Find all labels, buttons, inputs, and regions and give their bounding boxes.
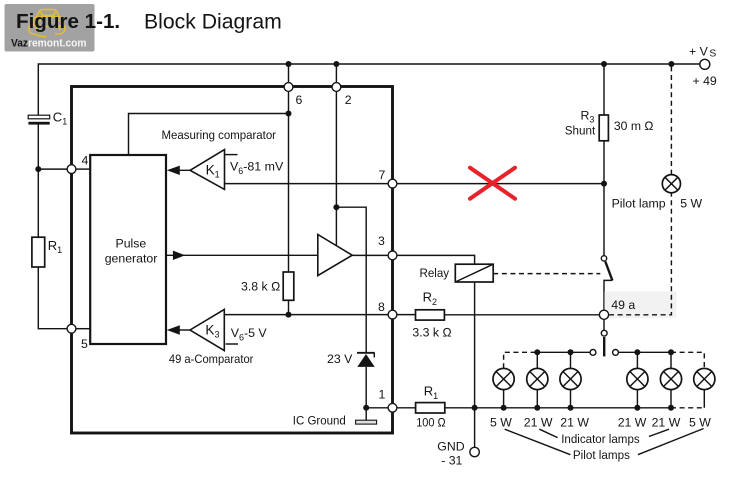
wire R1 to pin5 [38,267,67,329]
wire 3.8k to pin8 row [288,300,290,314]
pulse generator block [90,155,166,344]
wire zener to pin1 row [365,367,367,408]
svg-text:IC Ground: IC Ground [293,414,346,428]
terminal GND -31 [470,447,479,456]
node top bus lamp2 [534,349,540,355]
wire pin8 row inside [224,314,388,316]
wire 49a to lamp switch [603,319,605,330]
svg-text:3: 3 [378,234,385,248]
pointer line Pilot lamps to 5W right [638,429,704,455]
node top bus lamp4 [634,349,640,355]
wire pin2 down [335,91,337,245]
lamp switch pivot contact [601,330,607,336]
dashed wire relay to pilot switch [493,273,600,275]
svg-text:Pilot lamps: Pilot lamps [573,448,630,462]
node top bus lamp5 [668,349,674,355]
wire pin4 to pulse generator [76,168,90,170]
svg-text:49 a-Comparator: 49 a-Comparator [169,352,254,366]
lamp switch right contact [613,350,619,356]
wire top bus to pin6 [288,64,290,83]
pin 5 [67,324,76,333]
svg-text:7: 7 [379,168,386,182]
wire relay to ground node [474,282,476,408]
red cross mark [470,168,515,199]
resistor R1 100ohm [416,403,445,413]
wire pin7 row [225,183,389,185]
pin 3 [388,251,397,260]
node left at pin4 row [35,166,41,172]
svg-text:+ 49: + 49 [693,74,717,88]
watermark Vazremont logo box [5,4,95,52]
dashed lamp ground bus right end [671,407,704,409]
lamp switch blade [603,337,605,356]
node top bus / R3 [601,61,607,67]
node pin2 / zener branch [333,204,339,210]
svg-text:21 W: 21 W [618,416,647,430]
pilot lamp [662,175,680,193]
svg-text:Block Diagram: Block Diagram [144,11,282,34]
wire pin1 to R1 [397,407,416,409]
pointer line 5W left to Pilot lamps [505,429,571,455]
resistor 3.8k [283,272,294,300]
wire R2 to 49a [444,314,599,316]
node top bus / pin6 [286,61,292,67]
svg-text:V6-81 mV: V6-81 mV [230,160,284,176]
dashed wire 49a to pilot lamp [609,193,671,315]
watermark remnant tint behind 49a [605,292,677,319]
pilot switch contact [601,256,606,261]
IC ground symbol [356,408,377,424]
wire K1 branch to pulse generator top [129,114,289,156]
resistor R2 [416,310,445,320]
wire zener branch [336,207,366,352]
wire pin7 to shunt node [397,183,604,185]
zener diode 23V [357,353,375,367]
lamp top bus solid left [537,351,590,353]
wire R3 to pilot switch [603,141,605,256]
svg-text:Vazremont.com: Vazremont.com [11,38,87,50]
lamp switch left contact [590,350,596,356]
node top bus lamp3 [568,349,574,355]
wire pin3 to relay [397,255,475,264]
pilot switch blade [605,262,612,281]
svg-text:V6-5 V: V6-5 V [231,326,268,342]
node top bus / pin2 [333,61,339,67]
node ground bus lamp3 [568,405,574,411]
svg-text:23 V: 23 V [327,352,353,366]
pointer line 21W left to Indicator lamps [539,429,557,437]
svg-text:Measuring comparator: Measuring comparator [162,128,277,142]
svg-text:21 W: 21 W [652,416,681,430]
node pin7 row / R3 line [601,181,607,187]
wire GND branch [474,408,476,447]
svg-text:5 W: 5 W [689,416,711,430]
wire top bus to pin2 [335,64,337,83]
svg-text:GND: GND [437,440,464,454]
wire pin6 down to 3.8k [288,91,290,272]
dashed wire pilot lamp to top bus [670,64,672,175]
wire pin1 row inside [366,407,388,409]
wire K3 output arrow into pulse generator [167,325,190,334]
svg-text:3.3 k Ω: 3.3 k Ω [412,326,452,340]
pin 8 [388,310,397,319]
svg-text:2: 2 [345,93,352,107]
wire K3 reference stub [226,343,238,345]
op-amp K1 measuring comparator [190,150,224,190]
node pin6 line / K1 branch [286,111,292,117]
wire K1 output arrow into pulse generator [167,166,191,175]
svg-text:Indicator lamps: Indicator lamps [561,432,640,446]
svg-text:Figure 1-1.: Figure 1-1. [16,10,120,33]
svg-text:6: 6 [296,93,303,107]
svg-text:100 Ω: 100 Ω [416,415,446,429]
wire node to pin 4 [38,168,67,170]
relay coil box [455,264,493,282]
lamp L5 21W [660,352,681,408]
pointer line Indicator lamps to 21W right [649,429,669,436]
wire amp output to pin3 [352,254,388,256]
wire K1 reference stub [225,154,238,156]
wire C1 to node4 [37,125,39,238]
lamp top bus solid right [618,351,671,353]
svg-text:5 W: 5 W [490,416,512,430]
pin 4 [67,165,76,174]
node ground bus lamp5 [668,405,674,411]
svg-text:5 W: 5 W [680,197,702,211]
lamp top bus dashed left [504,352,538,368]
svg-text:Shunt: Shunt [565,124,596,138]
lamp top bus dashed right [671,352,704,368]
wire lamp ground bus [445,407,671,409]
svg-text:generator: generator [105,252,158,266]
svg-text:Relay: Relay [420,266,450,280]
wire pulse generator output arrow to amp [166,251,318,260]
pin 7 [388,179,397,188]
svg-text:Pulse: Pulse [116,237,147,251]
pilot switch foot [604,280,612,310]
node top bus / pilot branch [668,61,674,67]
IC box [72,87,393,434]
resistor R1 timing [32,237,45,267]
terminal 49a [599,310,608,319]
node ground bus lamp2 [534,405,540,411]
node 3.8k / pin8 row [286,312,292,318]
lamp L3 21W [560,352,581,408]
node zener / pin1 row [363,405,369,411]
svg-text:21 W: 21 W [524,416,553,430]
wire top supply bus [38,64,700,115]
svg-text:21 W: 21 W [560,416,589,430]
pin 1 [388,403,397,412]
svg-text:3.8 k Ω: 3.8 k Ω [241,280,281,294]
node ground bus lamp4 [634,405,640,411]
resistor R3 shunt [599,115,608,141]
lamp L4 21W [627,352,648,408]
lamp L2 21W [527,352,548,408]
svg-text:1: 1 [379,388,386,402]
op-amp K3 49a comparator [190,309,224,350]
svg-text:Pilot lamp: Pilot lamp [612,197,666,211]
wire pin5 to pulse generator [76,328,90,330]
lamp L1 5W [493,368,514,408]
svg-text:5: 5 [81,337,88,351]
capacitor C1 [28,115,50,124]
svg-text:30 m Ω: 30 m Ω [614,119,654,133]
pin 2 [332,83,341,92]
svg-text:8: 8 [378,300,385,314]
svg-text:- 31: - 31 [441,454,462,468]
wire pin8 to R2 [397,314,416,316]
lamp L6 5W [694,368,715,408]
svg-text:4: 4 [82,154,89,168]
pin 6 [284,83,293,92]
node ground bus / relay+GND [472,405,478,411]
terminal +Vs circle [700,59,710,69]
wire R3 branch from top bus [603,64,605,115]
svg-text:49 a: 49 a [611,298,635,312]
node ground bus lamp1 [501,405,507,411]
output amplifier [318,235,352,276]
